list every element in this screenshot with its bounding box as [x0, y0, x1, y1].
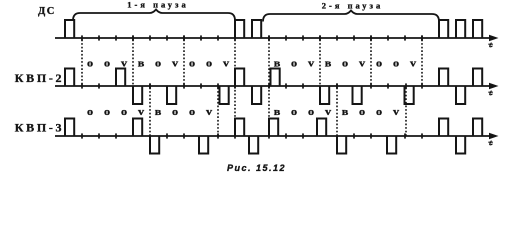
svg-text:v: v — [325, 107, 332, 118]
svg-text:о: о — [189, 58, 196, 69]
svg-text:в: в — [325, 58, 332, 69]
svg-text:о: о — [87, 107, 94, 118]
svg-text:в: в — [138, 58, 145, 69]
svg-text:о: о — [359, 107, 366, 118]
svg-text:v: v — [223, 58, 230, 69]
svg-text:1-я пауза: 1-я пауза — [127, 0, 188, 10]
svg-text:v: v — [393, 107, 400, 118]
svg-text:о: о — [291, 107, 298, 118]
svg-text:КВП-2: КВП-2 — [15, 71, 65, 85]
svg-text:о: о — [155, 58, 162, 69]
svg-text:v: v — [359, 58, 366, 69]
svg-text:о: о — [291, 58, 298, 69]
svg-text:о: о — [172, 107, 179, 118]
svg-text:v: v — [206, 107, 213, 118]
svg-text:v: v — [308, 58, 315, 69]
svg-text:v: v — [121, 58, 128, 69]
svg-text:v: v — [138, 107, 145, 118]
svg-text:v: v — [410, 58, 417, 69]
svg-text:2-я пауза: 2-я пауза — [322, 1, 383, 11]
svg-text:о: о — [104, 107, 111, 118]
svg-text:в: в — [342, 107, 349, 118]
svg-text:в: в — [274, 58, 281, 69]
svg-text:о: о — [342, 58, 349, 69]
svg-text:о: о — [206, 58, 213, 69]
svg-text:о: о — [121, 107, 128, 118]
svg-text:о: о — [376, 107, 383, 118]
svg-text:о: о — [189, 107, 196, 118]
svg-text:в: в — [155, 107, 162, 118]
svg-text:ДС: ДС — [38, 6, 56, 17]
svg-text:о: о — [308, 107, 315, 118]
svg-text:в: в — [274, 107, 281, 118]
svg-text:v: v — [172, 58, 179, 69]
svg-text:о: о — [376, 58, 383, 69]
svg-text:КВП-3: КВП-3 — [15, 121, 65, 135]
svg-text:о: о — [87, 58, 94, 69]
svg-text:Рис. 15.12: Рис. 15.12 — [227, 163, 286, 173]
svg-text:о: о — [104, 58, 111, 69]
svg-text:о: о — [393, 58, 400, 69]
